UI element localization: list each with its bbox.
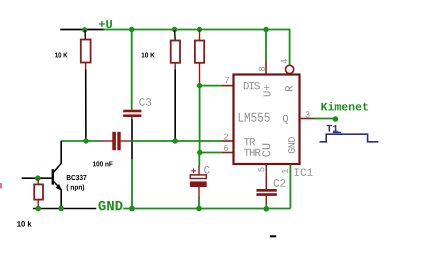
label C [204,166,210,173]
label C2 [274,179,286,186]
waveform pulse [320,134,379,142]
wire pin6 net green horizontal [200,152,223,154]
label C3 [139,98,151,105]
label ( npn) [67,184,85,191]
label T1 [327,125,338,132]
wire capacitor C to GND green [198,197,200,209]
junction GND / R4 [35,206,41,212]
resistor R1 top lead [84,30,86,40]
wire R2 to pin2 net (black) [174,70,176,142]
label minus [270,235,276,237]
pin 3 stub [300,118,315,120]
pin number 1 [282,169,288,173]
resistor R1 bottom lead [85,63,87,71]
pin number 7 [225,77,229,83]
wire pin6 net down to capacitor C [198,153,200,168]
pin name THR [244,149,261,156]
wire collector net green horizontal [61,140,99,142]
pin name CU rotated [262,144,270,157]
junction top rail / R2 [172,27,177,32]
wire top rail green +U net [104,29,291,31]
transistor Q1 base wire [22,177,52,179]
wire top rail black segment [60,29,103,31]
junction pin6 net [197,150,202,155]
wire C2 to GND green [265,203,267,209]
pin 7 stub [222,85,234,87]
wire pin7 net green horizontal [200,85,223,87]
wire pin2 net green horizontal [130,140,222,142]
junction GND / C3 [129,206,135,212]
wire pin8 branch green [265,30,267,63]
timer IC1 LM555 body [234,75,300,165]
resistor R2 bottom lead [174,63,176,70]
junction top rail / pin8 [263,27,268,32]
junction GND / emitter [58,206,64,212]
wire C3 vertical green segment to GND [131,159,133,208]
wire collector vertical black [60,141,62,164]
pin 4 inversion bubble [286,65,294,73]
capacitor C top lead [198,167,200,176]
pin name GND rotated [288,137,295,153]
red edge mark [0,183,2,189]
wire GND rail black segment [33,208,96,210]
capacitor C bottom lead [198,187,200,198]
pin name DIS [244,82,260,89]
label 10 K (R1) [55,53,67,58]
capacitor C2 bottom lead [265,196,267,204]
pin 5 stub and C2 top lead [265,165,267,190]
label +U [99,20,112,28]
resistor R3 body [195,41,204,63]
junction top rail / R3 [197,27,202,32]
pin number 5 [258,167,264,171]
junction base / R4 [35,175,41,181]
pin number 2 [224,133,228,139]
capacitor C2 top plate [256,189,276,192]
resistor R2 top lead [174,30,177,41]
capacitor C3 top plate [123,110,141,113]
wire pin7-pin6 green vertical [199,86,201,153]
resistor R4 top lead [37,178,39,185]
junction R2 / pin2 net [173,138,178,143]
T1 underline [333,131,341,133]
junction R1 / collector net [83,138,88,143]
label 100 nF [93,161,113,166]
junction top rail / R1 [82,27,87,32]
transistor Q1 collector diagonal [54,163,62,172]
label 10 k [17,221,31,227]
pin name Q [283,115,288,124]
label GND [98,201,122,211]
pin number 8 [259,67,265,71]
junction R3 / pin7 net [197,83,202,88]
transistor Q1 emitter diagonal [54,181,62,190]
wire pin1 branch green [289,165,291,209]
junction top rail / C3 [129,27,134,32]
node output end [333,116,339,122]
capacitor 100nF right plate [117,132,120,150]
pin name R rotated [285,86,292,91]
pin number 4 [281,59,287,63]
pin 2 stub [222,140,234,142]
resistor R1 body [81,40,91,63]
label 10 K (R2) [142,53,155,58]
pin number 6 [224,145,228,151]
capacitor C3 bottom plate [123,114,141,117]
junction GND / C2 [264,206,270,212]
wire GND rail green segment [123,208,290,210]
label BC337 [67,175,87,180]
label Kimenet [321,102,367,110]
label IC1 [294,168,312,175]
wire emitter vertical black [60,190,62,209]
label + polarity [191,168,196,173]
junction GND / C [196,206,202,212]
resistor R2 body [171,41,180,63]
wire pin4 branch green [289,30,291,66]
resistor R4 bottom lead [37,199,39,208]
resistor R3 top lead [199,30,201,41]
wire C3 branch green upper [131,30,133,110]
capacitor 100nF left plate [112,132,116,150]
wire C3 vertical black segment [131,119,133,159]
wire R1 to collector net (black) [85,70,87,142]
wire C3 lower stub red [131,117,133,120]
capacitor C top plate hollow [190,175,206,179]
label LM555 [239,113,270,122]
capacitor 100nF right lead [121,140,131,142]
pin 6 stub [222,152,234,154]
resistor R4 body [34,184,43,199]
transistor Q1 emitter arrow [56,184,62,191]
transistor Q1 base bar [52,169,54,184]
resistor R3 bottom lead [199,63,201,86]
wire output net green [314,118,335,120]
pin name U+ rotated [263,85,270,96]
pin number 3 [305,111,309,117]
pin 8 stub [265,62,267,75]
pin name TR [244,138,255,145]
capacitor C bottom plate solid [190,181,207,187]
capacitor C2 bottom plate [256,193,276,196]
capacitor 100nF left lead [99,140,112,142]
